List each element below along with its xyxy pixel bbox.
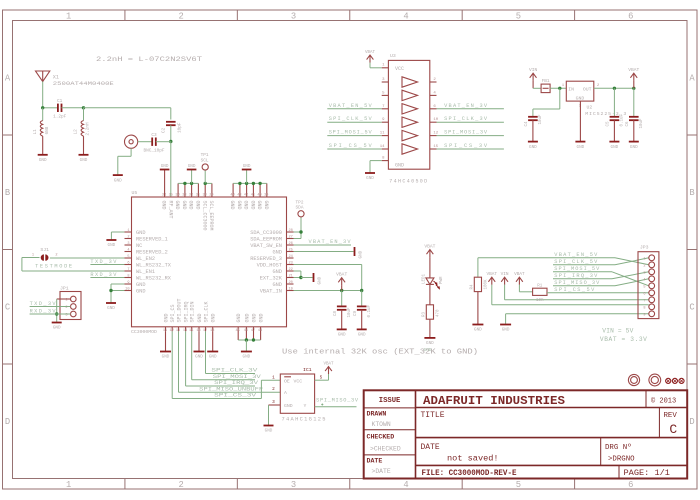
title block outline bbox=[364, 390, 688, 478]
svg-text:VIN: VIN bbox=[501, 272, 509, 277]
svg-text:BNC_10pF: BNC_10pF bbox=[143, 148, 164, 153]
svg-text:32: 32 bbox=[189, 194, 193, 198]
inductor L2 bbox=[74, 108, 91, 155]
svg-text:GND: GND bbox=[162, 355, 170, 360]
svg-text:45: 45 bbox=[236, 329, 240, 333]
svg-text:GND: GND bbox=[338, 333, 346, 338]
svg-text:VBAT_EN_3V: VBAT_EN_3V bbox=[444, 103, 488, 109]
svg-text:SCL: SCL bbox=[201, 159, 209, 164]
svg-text:Use internal 32K osc (EXT_32K: Use internal 32K osc (EXT_32K to GND) bbox=[282, 349, 478, 357]
net label SPI_CS_3V bbox=[444, 143, 488, 149]
capacitor C5 bbox=[607, 88, 625, 141]
svg-text:© 2013: © 2013 bbox=[651, 397, 676, 406]
wire antenna node to C1 bbox=[41, 106, 57, 109]
test point TP2 SDA bbox=[296, 200, 305, 217]
svg-text:GND: GND bbox=[358, 333, 366, 338]
ground U5 pin18 bbox=[207, 331, 218, 359]
net label TXD_3V bbox=[90, 259, 117, 265]
svg-text:GND: GND bbox=[136, 288, 146, 294]
regulator U2 MIC5225-3.3 bbox=[562, 81, 627, 117]
IC U5 right pin stubs bbox=[287, 232, 294, 291]
svg-text:GND: GND bbox=[53, 326, 61, 331]
svg-text:VBAT: VBAT bbox=[514, 272, 525, 277]
svg-text:26: 26 bbox=[289, 242, 293, 246]
svg-text:GND: GND bbox=[243, 201, 249, 210]
svg-text:GND: GND bbox=[181, 201, 187, 210]
wire SPI_IRQ_3V bbox=[186, 331, 255, 386]
coax connector X2 bbox=[125, 135, 138, 148]
svg-text:GND: GND bbox=[161, 164, 169, 169]
power VBAT at U3 bbox=[365, 51, 376, 63]
inductor L1 bbox=[33, 108, 50, 155]
svg-text:SPI_CLK_3V: SPI_CLK_3V bbox=[211, 368, 258, 374]
svg-text:SPI_IRQ_3V: SPI_IRQ_3V bbox=[214, 380, 259, 386]
wire SDA tie to TP2 bbox=[294, 217, 303, 239]
ground top group 1 bbox=[187, 164, 197, 170]
svg-text:FB1: FB1 bbox=[542, 79, 550, 84]
svg-text:GND: GND bbox=[209, 355, 217, 360]
svg-text:6: 6 bbox=[643, 292, 645, 296]
resistor R4 pullup bbox=[471, 258, 489, 292]
ground C4 bbox=[528, 142, 538, 150]
svg-text:42: 42 bbox=[244, 194, 248, 198]
net label SPI_CLK_3V bbox=[444, 116, 488, 122]
svg-text:33: 33 bbox=[182, 194, 186, 198]
svg-text:SPI_MOSI_3V: SPI_MOSI_3V bbox=[213, 374, 262, 380]
svg-text:WL_RS232_TX: WL_RS232_TX bbox=[136, 262, 172, 268]
wire U3 VCC to VBAT bbox=[370, 63, 382, 68]
ground L1 bbox=[38, 155, 48, 163]
svg-text:X1: X1 bbox=[53, 75, 59, 81]
svg-text:C9: C9 bbox=[354, 310, 358, 316]
title block FILE row bbox=[422, 465, 670, 478]
ground IC1 bbox=[264, 426, 274, 434]
ground U3 bbox=[365, 173, 375, 181]
svg-text:30: 30 bbox=[203, 194, 207, 198]
mounting pads bbox=[666, 378, 684, 383]
svg-text:SPI_CS_5V: SPI_CS_5V bbox=[329, 143, 373, 149]
IC U3 74HC4050D body bbox=[388, 53, 429, 185]
wire FB1 to U2 IN bbox=[550, 87, 566, 90]
svg-text:34: 34 bbox=[175, 194, 179, 198]
wire node to C2 corner bbox=[84, 108, 171, 120]
svg-text:GND: GND bbox=[114, 178, 122, 183]
svg-text:74HC4050D: 74HC4050D bbox=[389, 179, 427, 185]
wire U3 output VBAT_EN_3V bbox=[437, 108, 504, 110]
wire coax shield to ground bbox=[118, 148, 131, 175]
svg-text:SPI_CS_5V: SPI_CS_5V bbox=[554, 287, 595, 293]
svg-text:D: D bbox=[5, 417, 10, 427]
svg-text:GND: GND bbox=[136, 282, 146, 288]
wire RXD_3V to JP1 pin3 bbox=[30, 313, 71, 315]
power VIN to JP3 pin7 bbox=[501, 272, 509, 300]
svg-text:1: 1 bbox=[272, 376, 275, 381]
svg-text:31: 31 bbox=[196, 194, 200, 198]
wire U2 OUT to VBAT bbox=[594, 87, 636, 90]
wire GND row9 bbox=[506, 313, 649, 315]
svg-text:ISSUE: ISSUE bbox=[379, 397, 401, 405]
svg-text:VCC: VCC bbox=[294, 379, 303, 385]
svg-text:2500AT44M0400E: 2500AT44M0400E bbox=[53, 81, 114, 87]
IC1 pin numbers bbox=[272, 376, 323, 405]
svg-text:VDD_HOST: VDD_HOST bbox=[257, 262, 282, 268]
wire SPI_MISO_UNBUFF bbox=[179, 331, 281, 392]
svg-text:GND: GND bbox=[366, 176, 374, 181]
svg-text:WL_EN2: WL_EN2 bbox=[136, 256, 155, 262]
svg-text:SDA: SDA bbox=[296, 206, 304, 211]
svg-text:SPI_DOUT: SPI_DOUT bbox=[176, 298, 182, 322]
svg-text:10uF: 10uF bbox=[539, 114, 543, 125]
net label SPI_IRQ_3V JP3 bbox=[554, 273, 598, 279]
svg-text:10: 10 bbox=[433, 118, 438, 122]
svg-text:100K: 100K bbox=[484, 279, 488, 290]
power VIN arrow bbox=[529, 67, 538, 88]
ground JP1 bbox=[52, 323, 62, 331]
wire U5 pin25 GND bbox=[294, 251, 354, 253]
svg-text:2.2nH: 2.2nH bbox=[86, 122, 91, 136]
svg-text:U2: U2 bbox=[587, 105, 593, 111]
svg-text:2: 2 bbox=[127, 235, 129, 239]
ground JP3 pin9 bbox=[500, 314, 511, 333]
IC U5 right pin numbers bbox=[289, 229, 293, 291]
connector JP3 bbox=[638, 245, 659, 319]
frame row letters right bbox=[689, 73, 695, 427]
ground top group 2 bbox=[242, 164, 252, 170]
svg-text:GND: GND bbox=[107, 306, 115, 311]
test point TP1 SCL bbox=[201, 153, 209, 170]
net label SPI_CS_5V JP3 bbox=[554, 287, 595, 293]
svg-text:SPI_MOSI_5V: SPI_MOSI_5V bbox=[329, 130, 373, 136]
svg-text:JP3: JP3 bbox=[640, 245, 649, 251]
IC U5 left pin labels bbox=[136, 230, 172, 294]
svg-text:3: 3 bbox=[643, 271, 645, 275]
wire top GND tie bar right bbox=[233, 170, 267, 186]
svg-text:GND: GND bbox=[174, 201, 180, 210]
wire bottom GND tie right group bbox=[238, 338, 260, 351]
svg-text:GND: GND bbox=[259, 313, 265, 322]
svg-text:TXD_3V: TXD_3V bbox=[30, 301, 57, 307]
svg-text:C: C bbox=[5, 302, 10, 312]
IC U5 top pin labels bbox=[161, 201, 269, 231]
svg-text:VBAT: VBAT bbox=[365, 51, 376, 55]
ground U5 pin11 bbox=[160, 331, 171, 359]
IC U5 right pin labels bbox=[250, 230, 283, 294]
wire antenna down bbox=[42, 82, 44, 108]
svg-text:C: C bbox=[669, 422, 677, 437]
svg-text:SPI_CS_3V: SPI_CS_3V bbox=[214, 393, 257, 399]
IC U5 bottom pin stubs bbox=[166, 327, 261, 340]
wire VIN row7 bbox=[505, 299, 649, 301]
LED LED1 bbox=[423, 273, 444, 288]
wire VBAT_EN_3V bbox=[294, 244, 352, 246]
net label RXD_3V bbox=[90, 272, 117, 278]
svg-text:PAGE: 1/1: PAGE: 1/1 bbox=[624, 468, 670, 478]
svg-text:GND: GND bbox=[236, 313, 242, 322]
wire U3 output SPI_CS_3V bbox=[437, 148, 504, 150]
svg-text:VIN = 5V: VIN = 5V bbox=[602, 328, 633, 335]
svg-text:2: 2 bbox=[55, 254, 57, 258]
wire VIN to FB1 bbox=[533, 87, 541, 89]
title block left column rows bbox=[364, 397, 416, 475]
svg-text:41: 41 bbox=[251, 194, 255, 198]
svg-text:C2: C2 bbox=[162, 127, 167, 133]
wire crossover rows 3-5 bbox=[612, 272, 649, 286]
svg-text:ADAFRUIT INDUSTRIES: ADAFRUIT INDUSTRIES bbox=[423, 394, 565, 408]
svg-text:3: 3 bbox=[291, 11, 296, 21]
svg-text:RF_ANT: RF_ANT bbox=[167, 201, 173, 219]
net label SPI_MOSI_3V bbox=[444, 130, 488, 136]
ground C6 bbox=[629, 142, 639, 150]
svg-text:>DATE: >DATE bbox=[372, 468, 391, 475]
svg-text:35: 35 bbox=[169, 194, 173, 198]
capacitor C9 bbox=[354, 291, 372, 330]
svg-text:4: 4 bbox=[643, 278, 645, 282]
svg-text:GND: GND bbox=[195, 201, 201, 210]
wire U3 output SPI_CLK_3V bbox=[437, 121, 504, 123]
svg-text:B: B bbox=[5, 188, 10, 198]
svg-text:9: 9 bbox=[127, 281, 129, 285]
wire VDD_HOST loop bbox=[294, 265, 362, 291]
wire U3 GND pin bbox=[370, 161, 382, 173]
note 2.2nH bbox=[96, 56, 202, 63]
svg-text:39: 39 bbox=[264, 194, 268, 198]
svg-text:3: 3 bbox=[127, 242, 129, 246]
wire SJ1 pin2 to U5 WL_EN2 bbox=[50, 257, 125, 259]
wire TESTMODE loop SJ1 pin1 to U5 WL_EN1 bbox=[22, 258, 125, 272]
svg-text:SJ1: SJ1 bbox=[40, 247, 49, 253]
svg-text:6: 6 bbox=[127, 261, 129, 265]
svg-text:5: 5 bbox=[516, 11, 521, 21]
svg-text:KTOWN: KTOWN bbox=[372, 421, 391, 428]
svg-text:7: 7 bbox=[643, 299, 645, 303]
svg-text:DRAWN: DRAWN bbox=[367, 411, 387, 418]
wire crossover rows 1-2 bbox=[615, 258, 649, 265]
ground C5 bbox=[609, 142, 619, 150]
wire SPI_MOSI_3V bbox=[192, 331, 255, 380]
net label VBAT_EN_5V JP3 bbox=[554, 252, 598, 258]
svg-text:GND: GND bbox=[576, 95, 585, 101]
svg-text:GND: GND bbox=[243, 355, 251, 360]
title block company row bbox=[416, 390, 688, 408]
wire SPI_MISO_3V row5 bbox=[553, 285, 615, 287]
net label SPI_MISO_UNBUFF bbox=[199, 386, 263, 392]
power VBAT at IC1 bbox=[323, 362, 334, 374]
svg-text:3: 3 bbox=[272, 400, 275, 405]
svg-text:VCC: VCC bbox=[395, 66, 404, 72]
svg-text:23: 23 bbox=[289, 261, 293, 265]
power VBAT at U2 bbox=[628, 67, 639, 88]
svg-text:24: 24 bbox=[289, 255, 293, 259]
svg-text:8: 8 bbox=[643, 306, 645, 310]
svg-text:GND: GND bbox=[529, 145, 537, 150]
ground pin36 stub bbox=[160, 164, 170, 197]
wire coax to C3 bbox=[138, 141, 152, 143]
ground U5 pin16 bbox=[194, 331, 205, 359]
svg-text:>CHECKED: >CHECKED bbox=[370, 446, 401, 453]
svg-text:GND: GND bbox=[195, 355, 203, 360]
svg-text:10uF: 10uF bbox=[348, 307, 352, 318]
svg-text:10: 10 bbox=[125, 287, 129, 291]
svg-text:SPI_MISO_3V: SPI_MISO_3V bbox=[554, 280, 600, 286]
svg-text:VBAT_EN_5V: VBAT_EN_5V bbox=[554, 252, 598, 258]
svg-text:VBAT: VBAT bbox=[323, 362, 334, 366]
svg-text:2: 2 bbox=[178, 480, 183, 490]
svg-text:C3: C3 bbox=[151, 133, 157, 138]
ground C9 bbox=[357, 329, 367, 337]
svg-text:not saved!: not saved! bbox=[447, 454, 499, 464]
capacitor C8 bbox=[334, 291, 352, 330]
svg-text:SCL_CC3000: SCL_CC3000 bbox=[201, 201, 207, 231]
svg-text:TESTMODE: TESTMODE bbox=[35, 264, 72, 270]
svg-text:GND: GND bbox=[426, 341, 434, 346]
capacitor C4 input bbox=[525, 88, 560, 141]
svg-text:10uF: 10uF bbox=[640, 118, 644, 129]
svg-text:6N8: 6N8 bbox=[45, 126, 50, 134]
solder jumper SJ1 bbox=[32, 247, 72, 269]
wire EXT_32K to GND tie bbox=[294, 271, 313, 279]
svg-text:74AHC1G125: 74AHC1G125 bbox=[282, 417, 326, 423]
svg-text:GND: GND bbox=[188, 164, 196, 169]
svg-text:A: A bbox=[5, 73, 11, 83]
svg-text:VBAT: VBAT bbox=[424, 243, 435, 249]
svg-text:EXT_32K: EXT_32K bbox=[260, 275, 283, 281]
svg-text:SPI_IRQ_3V: SPI_IRQ_3V bbox=[554, 273, 598, 279]
svg-text:SPI_MOSI_3V: SPI_MOSI_3V bbox=[444, 130, 488, 136]
svg-text:FILE: CC3000MOD-REV-E: FILE: CC3000MOD-REV-E bbox=[422, 468, 517, 478]
svg-text:25: 25 bbox=[289, 248, 293, 252]
wire JP1 pin1 to ground bbox=[55, 299, 71, 323]
fiducial mark 1 bbox=[628, 374, 639, 385]
svg-text:2: 2 bbox=[643, 264, 645, 268]
wire RXD_3V bbox=[90, 277, 124, 279]
svg-text:>DRGNO: >DRGNO bbox=[608, 456, 635, 464]
wire VBAT_IN rail bbox=[294, 289, 364, 292]
ground L2 bbox=[79, 155, 89, 163]
svg-text:GND: GND bbox=[502, 328, 510, 333]
svg-text:C4: C4 bbox=[525, 121, 529, 127]
svg-text:GND: GND bbox=[263, 201, 269, 210]
svg-text:SPI_CLK_3V: SPI_CLK_3V bbox=[444, 116, 488, 122]
svg-text:5: 5 bbox=[127, 255, 129, 259]
net label TXD_3V JP1 bbox=[30, 301, 57, 307]
IC U5 bottom pin numbers bbox=[163, 329, 262, 333]
svg-text:1.2pF: 1.2pF bbox=[53, 115, 67, 120]
svg-text:1: 1 bbox=[562, 84, 564, 88]
svg-text:GND: GND bbox=[188, 201, 194, 210]
wire IC1 VCC to VBAT bbox=[315, 374, 329, 380]
svg-text:GND: GND bbox=[272, 269, 282, 275]
svg-text:LED1: LED1 bbox=[423, 273, 427, 284]
net label VBAT_EN_5V bbox=[329, 103, 373, 109]
wire SPI_MOSI_5V to U3 bbox=[327, 135, 381, 137]
ground coax bbox=[113, 175, 123, 183]
svg-text:GND: GND bbox=[395, 163, 404, 169]
wire VBAT_EN_5V row1 bbox=[478, 257, 615, 259]
svg-text:4: 4 bbox=[403, 480, 408, 490]
wire SPI_CLK_5V row2 bbox=[553, 264, 615, 266]
svg-text:GND: GND bbox=[197, 313, 203, 322]
svg-text:WL_RS232_RX: WL_RS232_RX bbox=[136, 275, 172, 281]
svg-text:VBAT_IN: VBAT_IN bbox=[260, 288, 282, 294]
svg-text:46: 46 bbox=[244, 329, 248, 333]
svg-text:GND: GND bbox=[424, 348, 432, 353]
svg-text:1: 1 bbox=[66, 11, 71, 21]
svg-text:TXD_3V: TXD_3V bbox=[90, 259, 117, 265]
power VBAT at LED bbox=[424, 243, 435, 278]
svg-text:SPI_CLK_5V: SPI_CLK_5V bbox=[554, 259, 598, 265]
frame column numbers bottom bbox=[66, 480, 633, 490]
ground R4 bbox=[472, 325, 483, 333]
svg-text:CC3000MOD: CC3000MOD bbox=[131, 329, 157, 335]
svg-text:C8: C8 bbox=[334, 310, 338, 316]
frame row letters left bbox=[5, 73, 11, 427]
capacitor C1 bbox=[53, 99, 67, 120]
wire R4 to ground bbox=[477, 292, 479, 325]
net label SPI_CLK_3V bbox=[211, 368, 258, 374]
svg-text:DRG Nº: DRG Nº bbox=[605, 443, 632, 452]
svg-text:10K: 10K bbox=[536, 299, 544, 303]
svg-text:11: 11 bbox=[380, 132, 385, 136]
net label SPI_CLK_5V bbox=[329, 116, 373, 122]
connector JP1 bbox=[60, 286, 81, 320]
wire TXD_3V bbox=[90, 264, 124, 266]
svg-text:22: 22 bbox=[289, 268, 293, 272]
ground U5 pin25 rotated bbox=[355, 247, 364, 259]
svg-text:WL_EN1: WL_EN1 bbox=[136, 269, 155, 275]
svg-text:48: 48 bbox=[258, 329, 262, 333]
svg-text:6: 6 bbox=[628, 11, 633, 21]
svg-text:2.2nH = L-07C2N2SV6T: 2.2nH = L-07C2N2SV6T bbox=[96, 56, 202, 63]
svg-text:470: 470 bbox=[436, 309, 440, 317]
svg-text:6: 6 bbox=[628, 480, 633, 490]
svg-text:SPI_DIN: SPI_DIN bbox=[190, 301, 196, 322]
ground U5 right bottom group bbox=[241, 352, 252, 360]
svg-text:C: C bbox=[689, 302, 694, 312]
wire VBAT_EN_5V to U3 bbox=[327, 108, 381, 110]
wire SPI_CS_5V to U3 bbox=[327, 148, 381, 150]
svg-text:15: 15 bbox=[433, 145, 438, 149]
svg-text:GND: GND bbox=[256, 201, 262, 210]
svg-text:7: 7 bbox=[127, 268, 129, 272]
svg-text:OUT: OUT bbox=[583, 86, 592, 92]
svg-text:GND: GND bbox=[611, 145, 619, 150]
resistor R3 bbox=[423, 305, 441, 319]
svg-text:R1: R1 bbox=[537, 285, 543, 289]
svg-text:GND: GND bbox=[474, 328, 482, 333]
svg-text:U5: U5 bbox=[132, 190, 138, 196]
svg-text:GND: GND bbox=[630, 145, 638, 150]
power VBAT at U5 bbox=[336, 272, 347, 291]
svg-text:GND: GND bbox=[272, 249, 282, 255]
svg-text:1: 1 bbox=[643, 257, 645, 261]
svg-text:CHECKED: CHECKED bbox=[367, 434, 395, 441]
svg-text:2: 2 bbox=[178, 11, 183, 21]
net label VBAT_EN_3V bbox=[309, 239, 352, 245]
wire U5 pins9/10 GND tie bbox=[109, 284, 124, 303]
net label SPI_CLK_5V JP3 bbox=[554, 259, 598, 265]
net label SPI_MOSI_5V bbox=[329, 130, 373, 136]
svg-text:27: 27 bbox=[289, 235, 293, 239]
svg-text:RESERVED_1: RESERVED_1 bbox=[136, 236, 168, 242]
net label SPI_MISO_3V bbox=[316, 398, 359, 406]
wire C1 to L2 node bbox=[62, 106, 86, 109]
svg-text:28: 28 bbox=[289, 229, 293, 233]
svg-text:SCL_EEPROM: SCL_EEPROM bbox=[208, 201, 214, 231]
capacitor C6 bbox=[626, 88, 644, 141]
svg-text:GND: GND bbox=[318, 276, 323, 284]
svg-text:4: 4 bbox=[403, 11, 408, 21]
svg-text:5: 5 bbox=[516, 480, 521, 490]
